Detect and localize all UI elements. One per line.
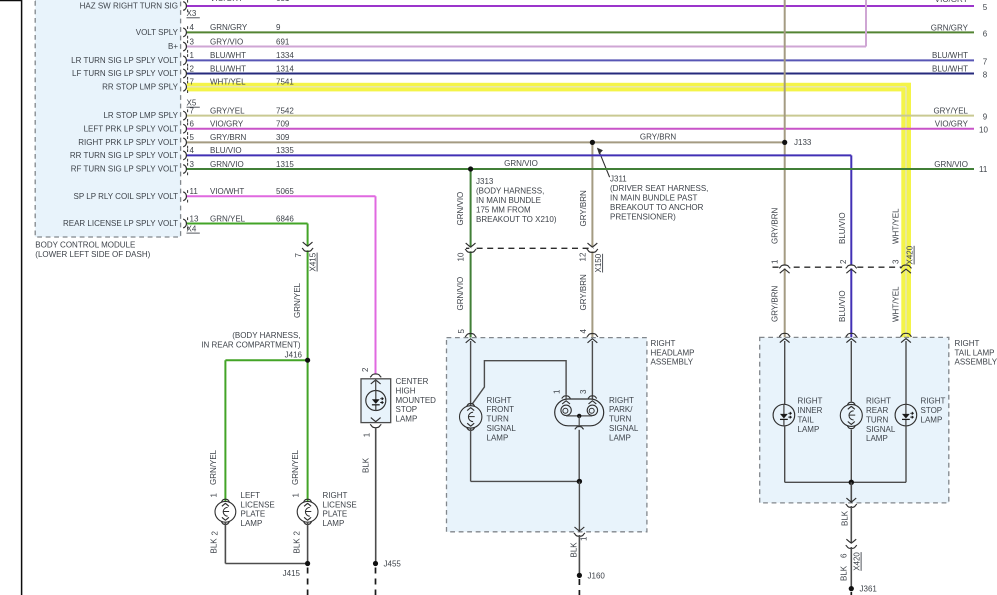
right tail lamp assembly box: [760, 337, 949, 503]
wire BLK to J160: [578, 535, 580, 575]
wire tail ground to box exit: [850, 482, 852, 503]
svg-text:9: 9: [276, 23, 281, 32]
svg-text:WHT/YEL: WHT/YEL: [892, 286, 901, 322]
svg-text:BODY CONTROL MODULE: BODY CONTROL MODULE: [35, 241, 135, 250]
svg-text:BLU/WHT: BLU/WHT: [210, 64, 246, 73]
wire WHT/YEL 7541: [187, 87, 906, 338]
wire GRN/YEL branch to left license lamp: [225, 360, 307, 502]
svg-text:9: 9: [983, 113, 988, 122]
svg-text:709: 709: [276, 120, 290, 129]
connector X415 label: [309, 252, 318, 271]
svg-text:J313: J313: [476, 177, 494, 186]
svg-text:J133: J133: [794, 138, 812, 147]
label BLK below tail box: [841, 510, 850, 526]
svg-text:BLK: BLK: [841, 510, 850, 526]
svg-text:1314: 1314: [276, 64, 294, 73]
right edge pin 7: [983, 57, 988, 66]
svg-text:J361: J361: [860, 585, 878, 594]
wire inside tail box to stop lamp: [905, 341, 907, 404]
left license plate lamp caption: [241, 491, 275, 528]
svg-text:TURN: TURN: [487, 415, 509, 424]
wire front turn lamp to ground bus: [471, 428, 580, 481]
svg-text:HEADLAMP: HEADLAMP: [651, 348, 695, 357]
label GRN/YEL left license: [209, 449, 218, 485]
svg-text:GRN/VIO: GRN/VIO: [210, 160, 244, 169]
connector X420 at GRY/BRN: [779, 265, 790, 273]
svg-text:1: 1: [292, 493, 301, 498]
svg-text:BLK: BLK: [362, 457, 371, 473]
svg-text:BLU/VIO: BLU/VIO: [838, 212, 847, 244]
BCM pin 2 label LF TURN SIG LP SPLY VOLT: [72, 64, 294, 79]
svg-text:BLU/WHT: BLU/WHT: [932, 64, 968, 73]
park/turn pin3 socket: [587, 405, 597, 415]
svg-text:GRN/YEL: GRN/YEL: [293, 282, 302, 318]
svg-text:VIO/GRY: VIO/GRY: [210, 120, 244, 129]
svg-text:REAR LICENSE LP SPLY VOLT: REAR LICENSE LP SPLY VOLT: [63, 219, 178, 228]
svg-text:VOLT SPLY: VOLT SPLY: [136, 28, 179, 37]
svg-text:X4: X4: [187, 225, 197, 234]
wire park/turn to ground bus: [578, 430, 580, 482]
connector X420 ground: [846, 539, 857, 548]
callout J311 leader arrow: [597, 148, 610, 178]
tail box entry WHT/YEL: [900, 333, 911, 342]
svg-text:LEFT: LEFT: [241, 491, 261, 500]
svg-text:J455: J455: [384, 560, 402, 569]
label GRY/BRN mid: [640, 132, 677, 141]
left license plate lamp: [215, 499, 236, 524]
wire BLK to J361: [850, 547, 852, 589]
svg-text:BREAKOUT TO ANCHOR: BREAKOUT TO ANCHOR: [610, 203, 704, 212]
svg-text:LAMP: LAMP: [396, 415, 418, 424]
svg-text:X420: X420: [853, 552, 862, 571]
tail box exit BLK: [846, 498, 857, 507]
park/turn bottom exit: [575, 427, 584, 430]
svg-text:TAIL LAMP: TAIL LAMP: [955, 348, 995, 357]
svg-text:LAMP: LAMP: [921, 415, 943, 424]
svg-text:BLU/WHT: BLU/WHT: [932, 51, 968, 60]
svg-text:2: 2: [211, 531, 220, 536]
svg-text:4: 4: [190, 23, 195, 32]
BCM pin 6 label LEFT PRK LP SPLY VOLT: [84, 120, 290, 135]
svg-text:B+: B+: [168, 42, 178, 51]
BCM pin 5 label RIGHT PRK LP SPLY VOLT: [78, 133, 290, 148]
svg-text:13: 13: [190, 214, 199, 223]
cut-off wire label top right: [935, 0, 969, 4]
svg-text:LAMP: LAMP: [798, 425, 820, 434]
label GRN/YEL below X415: [293, 282, 302, 318]
right inner tail lamp: [773, 404, 795, 426]
wire GRY/BRN 309 horizontal: [187, 141, 785, 143]
right tail lamp assembly caption: [955, 339, 997, 367]
right edge pin 5: [983, 3, 988, 12]
BCM pin 7 label RR STOP LMP SPLY: [102, 78, 294, 93]
right rear turn signal lamp caption: [866, 396, 896, 443]
right front turn signal lamp: [460, 404, 482, 431]
svg-text:GRY/VIO: GRY/VIO: [210, 37, 243, 46]
svg-text:GRY/BRN: GRY/BRN: [579, 274, 588, 311]
label GRN/VIO mid: [504, 159, 538, 168]
wire into park/turn pin3: [591, 341, 593, 399]
svg-text:GRN/VIO: GRN/VIO: [456, 277, 465, 311]
svg-text:J416: J416: [285, 351, 303, 360]
label BLU/WHT 1314 right: [932, 64, 968, 73]
svg-text:(LOWER LEFT SIDE OF DASH): (LOWER LEFT SIDE OF DASH): [35, 250, 150, 259]
svg-text:GRN/VIO: GRN/VIO: [456, 192, 465, 226]
wire headlamp ground to box exit: [578, 481, 580, 531]
svg-text:RIGHT: RIGHT: [955, 339, 980, 348]
label BLK below X420 ground: [840, 565, 849, 581]
svg-text:1: 1: [210, 493, 219, 498]
svg-text:4: 4: [579, 329, 588, 334]
svg-text:LICENSE: LICENSE: [241, 500, 275, 509]
right edge pin 6: [983, 29, 988, 38]
wire GRY/VIO 691: [187, 0, 866, 47]
svg-text:TURN: TURN: [609, 415, 631, 424]
svg-text:1: 1: [771, 259, 780, 264]
CHMSL pin 2: [361, 367, 370, 372]
svg-text:X5: X5: [187, 99, 197, 108]
BCM connector label X4: [187, 225, 200, 234]
right license lamp pin 2: [293, 531, 302, 536]
svg-text:GRN/GRY: GRN/GRY: [210, 23, 248, 32]
svg-text:2: 2: [839, 259, 848, 264]
right stop lamp caption: [921, 396, 946, 424]
wire inside tail box to rear turn lamp: [850, 341, 852, 402]
svg-text:7541: 7541: [276, 78, 294, 87]
svg-text:LEFT PRK LP SPLY VOLT: LEFT PRK LP SPLY VOLT: [84, 124, 179, 133]
label pin1 below headlamp box: [580, 536, 589, 541]
connector X420 dashed line: [773, 266, 902, 268]
connector X150 pin 10: [457, 252, 466, 261]
svg-text:WHT/YEL: WHT/YEL: [210, 78, 246, 87]
svg-text:4: 4: [190, 146, 195, 155]
callout J313 text: [476, 177, 557, 224]
BCM pin 4 label RR TURN SIG LP SPLY VOLT: [70, 146, 295, 161]
label GRY/BRN above X150: [579, 190, 588, 227]
svg-text:175 MM FROM: 175 MM FROM: [476, 205, 531, 214]
wire BLU/WHT 1334: [187, 59, 974, 61]
headlamp ground junction: [577, 479, 582, 484]
wire VIO/WHT 5065: [187, 196, 376, 373]
connector X420 at BLU/VIO: [846, 265, 857, 273]
wire GRN/GRY 9: [187, 31, 974, 33]
svg-text:6: 6: [840, 553, 849, 558]
BCM pin 4 label VOLT SPLY: [136, 23, 281, 38]
right headlamp assembly caption: [651, 339, 695, 367]
svg-text:GRN/GRY: GRN/GRY: [931, 23, 969, 32]
svg-text:IN MAIN BUNDLE PAST: IN MAIN BUNDLE PAST: [610, 193, 698, 202]
junction J313: [468, 166, 473, 171]
svg-text:LAMP: LAMP: [487, 433, 509, 442]
svg-text:309: 309: [276, 133, 290, 142]
ground lead J160 dashed: [578, 579, 580, 595]
svg-text:GRN/YEL: GRN/YEL: [291, 449, 300, 485]
svg-text:REAR: REAR: [866, 406, 888, 415]
svg-text:6846: 6846: [276, 214, 294, 223]
wire into park/turn pin1: [565, 395, 567, 400]
svg-text:RR STOP LMP SPLY: RR STOP LMP SPLY: [102, 82, 179, 91]
svg-text:GRN/YEL: GRN/YEL: [210, 214, 246, 223]
svg-text:HIGH: HIGH: [396, 386, 416, 395]
headlamp box exit BLK: [574, 527, 585, 536]
svg-text:VIO/GRY: VIO/GRY: [935, 120, 969, 129]
right inner tail lamp caption: [798, 396, 823, 433]
CHMSL pin 1: [362, 432, 371, 437]
label VIO/GRY right: [935, 120, 969, 129]
svg-text:BREAKOUT TO X210): BREAKOUT TO X210): [476, 215, 557, 224]
svg-text:GRN/VIO: GRN/VIO: [934, 160, 968, 169]
park/turn pin1 socket: [561, 405, 571, 415]
svg-text:2: 2: [361, 367, 370, 372]
wire inside CHMSL: [375, 380, 377, 391]
label BLK right license: [293, 538, 302, 554]
svg-text:5: 5: [983, 3, 988, 12]
svg-text:(BODY HARNESS,: (BODY HARNESS,: [232, 331, 300, 340]
svg-text:FRONT: FRONT: [487, 405, 515, 414]
ground lead J455 dashed: [375, 568, 377, 595]
svg-text:IN REAR COMPARTMENT): IN REAR COMPARTMENT): [201, 341, 301, 350]
wire inside tail box to inner tail lamp: [784, 341, 786, 404]
label BLK below CHMSL: [362, 457, 371, 473]
svg-text:BLU/WHT: BLU/WHT: [210, 51, 246, 60]
svg-text:(DRIVER SEAT HARNESS,: (DRIVER SEAT HARNESS,: [610, 184, 708, 193]
connector X420 at WHT/YEL: [900, 265, 911, 273]
BCM pin ? label HAZ SW RIGHT TURN SIG: [80, 0, 188, 12]
svg-text:VIO/GRY: VIO/GRY: [935, 0, 969, 4]
label BLU/WHT right: [932, 51, 968, 60]
right edge pin 9: [983, 113, 988, 122]
park/turn pin1 entry: [553, 389, 571, 404]
right edge pin 11: [979, 165, 988, 174]
right stop lamp: [895, 404, 917, 426]
svg-text:1335: 1335: [276, 146, 294, 155]
page left border line: [21, 0, 23, 595]
wire GRN/VIO 1315: [187, 168, 974, 170]
connector X150 at GRN/VIO: [465, 243, 476, 252]
BCM connector label X5: [187, 99, 200, 108]
connector X150 dashed line: [466, 247, 594, 249]
svg-text:X415: X415: [309, 252, 318, 271]
svg-text:BLU/VIO: BLU/VIO: [838, 290, 847, 322]
right edge pin 8: [983, 71, 988, 80]
junction J415: [283, 561, 311, 578]
CHMSL bottom exit: [370, 418, 381, 428]
svg-text:5: 5: [190, 133, 195, 142]
right park/turn signal lamp caption: [609, 396, 639, 443]
svg-text:GRY/BRN: GRY/BRN: [771, 285, 780, 322]
svg-text:X3: X3: [187, 9, 197, 18]
svg-text:J311: J311: [610, 175, 627, 184]
label WHT/YEL above X420: [892, 208, 901, 244]
center high mounted stop lamp LED: [366, 391, 386, 411]
svg-text:PLATE: PLATE: [241, 510, 266, 519]
svg-text:HAZ SW RIGHT TURN SIG: HAZ SW RIGHT TURN SIG: [80, 2, 178, 11]
svg-text:PARK/: PARK/: [609, 405, 633, 414]
svg-text:RR TURN SIG LP SPLY VOLT: RR TURN SIG LP SPLY VOLT: [70, 151, 178, 160]
svg-text:6: 6: [983, 29, 988, 38]
connector X420 ground pin 6: [840, 553, 849, 558]
BCM pin 11 label SP LP RLY COIL SPLY VOLT: [74, 187, 295, 202]
svg-text:7542: 7542: [276, 106, 294, 115]
svg-text:J160: J160: [588, 571, 606, 580]
svg-text:SIGNAL: SIGNAL: [487, 424, 517, 433]
svg-text:SIGNAL: SIGNAL: [609, 424, 639, 433]
svg-text:VIO/WHT: VIO/WHT: [210, 187, 244, 196]
wire GRN/VIO vertical at J313: [470, 169, 472, 338]
svg-text:(BODY HARNESS,: (BODY HARNESS,: [476, 186, 544, 195]
right rear turn signal lamp: [840, 402, 862, 428]
svg-text:GRN/VIO: GRN/VIO: [504, 159, 538, 168]
label WHT/YEL below X420: [892, 286, 901, 322]
svg-text:RIGHT: RIGHT: [609, 396, 634, 405]
svg-text:X420: X420: [906, 245, 915, 264]
svg-text:GRY/BRN: GRY/BRN: [210, 133, 247, 142]
ground lead J415 dashed: [307, 568, 309, 595]
svg-text:BLU/VIO: BLU/VIO: [210, 146, 242, 155]
svg-text:11: 11: [979, 165, 988, 174]
label GRN/VIO below X150: [456, 277, 465, 311]
tail box entry BLU/VIO: [846, 333, 857, 342]
highlight band WHT/YEL circuit (vertical): [901, 83, 911, 338]
ground lead J361 dashed: [850, 592, 852, 595]
svg-text:3: 3: [579, 389, 588, 394]
svg-text:10: 10: [457, 252, 466, 261]
CHMSL top entry: [370, 374, 381, 384]
wire BLU/VIO 1335: [187, 155, 851, 337]
svg-text:LR TURN SIG LP SPLY VOLT: LR TURN SIG LP SPLY VOLT: [71, 56, 178, 65]
svg-text:8: 8: [983, 71, 988, 80]
svg-text:TURN: TURN: [866, 415, 888, 424]
right edge pin 10: [979, 126, 988, 135]
svg-text:RIGHT: RIGHT: [323, 491, 348, 500]
svg-text:PLATE: PLATE: [323, 510, 348, 519]
svg-text:GRN/YEL: GRN/YEL: [209, 449, 218, 485]
wire GRY/YEL 7542: [187, 115, 974, 117]
connector X420 ground label: [853, 552, 862, 571]
svg-text:STOP: STOP: [921, 406, 943, 415]
connector X415 pin 7: [294, 253, 303, 258]
wire GRY/BRN vertical at J311: [591, 142, 593, 337]
svg-text:RIGHT: RIGHT: [651, 339, 676, 348]
svg-text:RIGHT: RIGHT: [798, 396, 823, 405]
svg-text:STOP: STOP: [396, 405, 418, 414]
BCM pin 1 label LR TURN SIG LP SPLY VOLT: [71, 51, 294, 66]
svg-text:3: 3: [892, 259, 901, 264]
right park/turn signal lamp socket oval: [555, 399, 604, 426]
label BLK below headlamp box: [570, 542, 579, 558]
svg-text:3: 3: [190, 160, 195, 169]
connector X150 at GRY/BRN: [587, 243, 598, 252]
center high mounted stop lamp caption: [396, 377, 437, 424]
svg-text:7: 7: [294, 253, 303, 258]
tail ground junction: [849, 480, 854, 485]
svg-text:BLK: BLK: [293, 538, 302, 554]
label GRN/VIO above X150: [456, 192, 465, 226]
svg-text:BLK: BLK: [210, 538, 219, 554]
wire HAZ SW RIGHT TURN SIG VIO (row1): [187, 5, 974, 7]
svg-text:10: 10: [979, 126, 988, 135]
right front turn signal lamp caption: [487, 396, 517, 443]
wire BLK to X420 ground: [850, 506, 852, 543]
svg-text:2: 2: [190, 64, 195, 73]
label GRY/BRN below X420: [771, 285, 780, 322]
svg-text:1334: 1334: [276, 51, 294, 60]
svg-text:SP LP RLY COIL SPLY VOLT: SP LP RLY COIL SPLY VOLT: [74, 192, 179, 201]
label BLU/VIO below X420: [838, 290, 847, 322]
label GRN/GRY right: [931, 23, 969, 32]
headlamp box entry GRN/VIO: [457, 329, 476, 343]
svg-text:LR STOP LMP SPLY: LR STOP LMP SPLY: [103, 111, 178, 120]
tail box entry GRY/BRN: [779, 333, 790, 342]
cut-off wire label top: [210, 0, 290, 3]
svg-text:2: 2: [293, 531, 302, 536]
svg-text:MOUNTED: MOUNTED: [396, 396, 437, 405]
highlight band WHT/YEL circuit (horizontal): [187, 83, 911, 92]
wire inside headlamp to front turn lamp: [470, 341, 472, 406]
svg-text:3: 3: [190, 37, 195, 46]
connector X150 label: [594, 253, 603, 272]
right license plate lamp caption: [323, 491, 357, 528]
svg-text:GRY/BRN: GRY/BRN: [579, 190, 588, 227]
svg-text:BLK: BLK: [570, 542, 579, 558]
wire GRY/BRN vertical at J133: [784, 0, 786, 337]
svg-text:BLK: BLK: [840, 565, 849, 581]
svg-text:PRETENSIONER): PRETENSIONER): [610, 212, 676, 221]
svg-text:7: 7: [190, 106, 195, 115]
svg-text:1: 1: [362, 432, 371, 437]
page top border line: [0, 0, 180, 2]
BCM connector label X3: [187, 9, 200, 18]
svg-text:INNER: INNER: [798, 406, 823, 415]
svg-text:VIO/GRY: VIO/GRY: [210, 0, 244, 3]
tail lamps ground bus: [785, 426, 906, 482]
svg-text:LICENSE: LICENSE: [323, 500, 357, 509]
right headlamp assembly box: [447, 338, 647, 532]
svg-text:11: 11: [190, 187, 199, 196]
svg-text:1315: 1315: [276, 160, 294, 169]
junction J311: [590, 140, 595, 145]
center high mounted stop lamp box: [361, 379, 391, 423]
svg-text:GRY/BRN: GRY/BRN: [640, 132, 677, 141]
svg-text:SIGNAL: SIGNAL: [866, 425, 896, 434]
wire BLU/WHT 1314: [187, 73, 974, 75]
BCM pin 7 label LR STOP LMP SPLY: [103, 106, 294, 121]
label GRN/YEL right license: [291, 449, 300, 485]
callout J311 text: [610, 175, 708, 222]
label GRY/BRN above X420: [771, 207, 780, 244]
wire BLK CHMSL to J455: [375, 428, 377, 564]
right license lamp pin 1: [292, 493, 301, 498]
body control module caption: [35, 241, 150, 260]
left license lamp pin 1: [210, 493, 219, 498]
svg-text:ASSEMBLY: ASSEMBLY: [955, 358, 997, 367]
svg-text:GRY/YEL: GRY/YEL: [210, 106, 245, 115]
svg-text:5065: 5065: [276, 187, 294, 196]
svg-text:IN MAIN BUNDLE: IN MAIN BUNDLE: [476, 196, 541, 205]
svg-text:RIGHT: RIGHT: [487, 396, 512, 405]
svg-text:5: 5: [457, 329, 466, 334]
svg-text:1: 1: [190, 51, 195, 60]
svg-text:1: 1: [580, 536, 589, 541]
svg-text:J415: J415: [283, 569, 301, 578]
svg-text:6: 6: [190, 120, 195, 129]
svg-text:RIGHT: RIGHT: [921, 396, 946, 405]
svg-text:LAMP: LAMP: [866, 434, 888, 443]
svg-text:WHT/YEL: WHT/YEL: [892, 208, 901, 244]
svg-text:LAMP: LAMP: [609, 433, 631, 442]
license lamps ground bus: [225, 522, 307, 564]
svg-text:RIGHT PRK LP SPLY VOLT: RIGHT PRK LP SPLY VOLT: [78, 138, 178, 147]
